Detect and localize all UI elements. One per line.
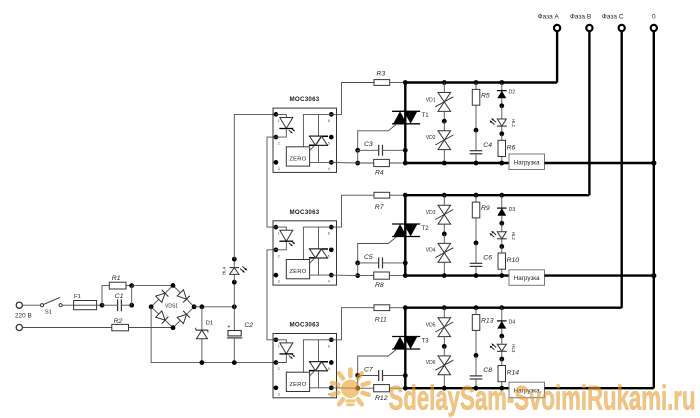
resistor R9 bbox=[472, 202, 480, 218]
load box channel 1 bbox=[509, 154, 545, 170]
U1 ZERO detector bbox=[286, 147, 309, 166]
svg-text:Фаза C: Фаза C bbox=[602, 14, 624, 21]
wire R2 to bridge bottom bbox=[129, 327, 174, 329]
U2 internal top rail bbox=[303, 227, 331, 259]
wire gate to C5 bbox=[358, 262, 379, 264]
wire VD middle bbox=[443, 224, 445, 234]
wire VD middle 2 bbox=[443, 234, 445, 244]
wire VD column bottom bbox=[443, 150, 445, 163]
wire R4 to bus bbox=[389, 162, 405, 164]
U2 ZERO detector bbox=[286, 260, 309, 279]
U1 gate link bbox=[310, 145, 315, 151]
dynistor VD1 bbox=[438, 93, 451, 102]
svg-text:HL3: HL3 bbox=[511, 344, 516, 353]
svg-text:1: 1 bbox=[278, 344, 280, 348]
junction D3 top bbox=[499, 193, 504, 198]
wire bridge plus bbox=[194, 306, 234, 308]
svg-text:0: 0 bbox=[652, 14, 656, 21]
wire gate node down bbox=[357, 263, 359, 276]
wire D2 lead bbox=[501, 83, 503, 91]
U2 internal led wires bbox=[276, 227, 286, 230]
svg-text:1: 1 bbox=[278, 119, 280, 123]
svg-text:R3: R3 bbox=[377, 70, 386, 77]
resistor R13 bbox=[472, 315, 480, 331]
op-coupler U1 body bbox=[273, 108, 337, 172]
resistor R14 bbox=[498, 366, 506, 382]
resistor R6 bbox=[498, 140, 506, 156]
svg-text:T1: T1 bbox=[422, 112, 430, 119]
svg-text:SdelaySam-SvoimiRukami.ru: SdelaySam-SvoimiRukami.ru bbox=[389, 380, 696, 418]
wire R13 to C8 bbox=[475, 330, 477, 355]
wire Фаза C drop bbox=[621, 32, 623, 308]
svg-text:VD1: VD1 bbox=[426, 98, 436, 104]
svg-text:T2: T2 bbox=[422, 225, 430, 232]
U3 internal top rail bbox=[303, 340, 331, 372]
svg-text:3: 3 bbox=[278, 167, 280, 171]
svg-text:Нагрузка: Нагрузка bbox=[514, 159, 540, 166]
dynistor VD3 bbox=[438, 205, 451, 214]
U3 internal bottom rail bbox=[310, 387, 332, 389]
resistor R11 bbox=[374, 305, 390, 311]
junction mid column bbox=[474, 241, 479, 246]
op-coupler U2 body bbox=[273, 221, 337, 285]
U3 internal led bbox=[280, 343, 293, 354]
svg-text:ZERO: ZERO bbox=[289, 157, 306, 163]
wire R14 to bus bbox=[501, 382, 503, 389]
junction neutral channel 2 bbox=[651, 273, 656, 278]
U1 internal led wires bbox=[276, 114, 286, 117]
junction R10 bottom bbox=[499, 273, 504, 278]
svg-text:VD2: VD2 bbox=[426, 135, 436, 141]
wire R5 to C4 bbox=[475, 105, 477, 130]
svg-text:2: 2 bbox=[278, 254, 280, 258]
wire U1 pin4 to gate bbox=[331, 161, 357, 164]
wire C5 to branch bbox=[383, 262, 406, 264]
svg-text:6: 6 bbox=[328, 119, 330, 123]
svg-text:R5: R5 bbox=[481, 92, 490, 99]
junction bridge top bbox=[171, 283, 176, 288]
op-coupler U3 body bbox=[273, 334, 337, 398]
wire VD column bottom bbox=[443, 262, 445, 275]
junction HL4 bottom bbox=[232, 280, 237, 285]
bridge diode top-right bbox=[177, 289, 190, 302]
resistor R2 bbox=[112, 324, 129, 330]
wire triac branch T1 bbox=[404, 83, 406, 164]
U3 internal led wires bbox=[276, 340, 286, 343]
junction gate node bbox=[355, 148, 360, 153]
svg-text:R1: R1 bbox=[112, 275, 121, 282]
wire R8 to bus bbox=[389, 275, 405, 277]
svg-text:C2: C2 bbox=[244, 322, 253, 329]
led HL3 bbox=[497, 344, 506, 351]
svg-text:S1: S1 bbox=[45, 310, 52, 316]
wire top bus channel 1 bbox=[405, 81, 557, 83]
wire gate to C3 bbox=[358, 149, 379, 151]
U2 pin 3 bbox=[274, 273, 279, 278]
svg-text:HL2: HL2 bbox=[511, 232, 516, 241]
wire HL3 to R14 bbox=[501, 351, 503, 359]
triac T2 bbox=[392, 223, 420, 225]
svg-text:3: 3 bbox=[278, 280, 280, 284]
wire VD middle 2 bbox=[443, 121, 445, 131]
svg-text:5: 5 bbox=[328, 254, 330, 258]
wire plus rail up bbox=[233, 282, 235, 307]
junction gate node bbox=[355, 373, 360, 378]
wire D3 to HL2 bbox=[501, 216, 503, 224]
junction HL1 bottom bbox=[499, 131, 504, 136]
svg-text:5: 5 bbox=[328, 367, 330, 371]
wire R1 to node bbox=[126, 285, 132, 287]
svg-text:C1: C1 bbox=[115, 293, 124, 300]
svg-text:R8: R8 bbox=[375, 282, 384, 289]
svg-text:R2: R2 bbox=[114, 318, 123, 325]
U1 pin 6 bbox=[329, 112, 334, 117]
svg-text:Фаза A: Фаза A bbox=[538, 14, 560, 21]
resistor R7 bbox=[374, 192, 390, 198]
U1 internal led bbox=[280, 118, 293, 129]
capacitor C1 bbox=[117, 299, 119, 311]
dynistor VD5 bbox=[438, 318, 451, 327]
svg-text:Нагрузка: Нагрузка bbox=[514, 275, 540, 282]
wire S1 to F1 bbox=[62, 304, 73, 306]
wire HL1 to R6 bbox=[501, 126, 503, 134]
junction C1 right bbox=[129, 303, 134, 308]
load box channel 3 bbox=[509, 382, 545, 398]
svg-text:ZERO: ZERO bbox=[289, 382, 306, 388]
dynistor VD6 bbox=[438, 356, 451, 365]
svg-text:T3: T3 bbox=[422, 337, 430, 344]
svg-text:C3: C3 bbox=[364, 141, 373, 148]
wire U1 pin2 to U2 pin1 bbox=[267, 137, 276, 227]
junction gate bottom bbox=[355, 161, 360, 166]
wire C6 bottom lead bbox=[475, 266, 477, 275]
capacitor C3 bbox=[378, 145, 380, 156]
led HL2 bbox=[497, 232, 506, 239]
junction R13 top bbox=[474, 305, 479, 310]
wire D4 lead bbox=[501, 308, 503, 321]
terminal 220V line 2 bbox=[16, 324, 22, 330]
wire gate to C7 bbox=[358, 375, 379, 377]
junction R7 to bus bbox=[390, 194, 406, 196]
wire D4 to HL3 bbox=[501, 329, 503, 337]
zener diode D1 bbox=[196, 329, 208, 331]
wire VD column top bbox=[443, 83, 445, 93]
capacitor C8 bbox=[470, 375, 483, 377]
junction C6 bottom bbox=[474, 273, 479, 278]
wire R9 to C6 bbox=[475, 218, 477, 243]
U2 pin 4 bbox=[329, 273, 334, 278]
svg-text:VD3: VD3 bbox=[426, 210, 436, 216]
svg-text:ZERO: ZERO bbox=[289, 269, 306, 275]
svg-text:VD6: VD6 bbox=[426, 360, 436, 366]
svg-text:D2: D2 bbox=[509, 89, 516, 95]
triac T3 bbox=[392, 336, 420, 338]
wire F1 to node bbox=[97, 304, 102, 306]
terminal 0 bbox=[651, 25, 657, 31]
wire top bus channel 3 bbox=[405, 307, 621, 309]
junction node after F1 bbox=[100, 303, 105, 308]
led HL1 bbox=[497, 119, 506, 126]
wire to R14 bbox=[501, 359, 503, 366]
wire to led HL1 bbox=[501, 106, 503, 119]
wire HL4 anode lead bbox=[233, 274, 235, 282]
wire to C8 bbox=[475, 355, 477, 376]
junction VD top bbox=[442, 305, 447, 310]
diode D4 bbox=[497, 320, 507, 322]
junction R3 to bus bbox=[390, 82, 406, 84]
svg-text:C7: C7 bbox=[364, 366, 373, 373]
wire R6 to bus bbox=[501, 157, 503, 164]
U2 pin 1 bbox=[274, 225, 279, 230]
U1 pin 5 bbox=[329, 135, 334, 140]
junction bridge right bbox=[192, 304, 197, 309]
diode bridge VDS1 frame bbox=[151, 285, 194, 327]
wire VD column top bbox=[443, 195, 445, 205]
svg-text:R4: R4 bbox=[375, 170, 384, 177]
wire to led HL2 bbox=[501, 223, 503, 231]
capacitor C6 bbox=[470, 262, 483, 264]
resistor R10 bbox=[498, 253, 506, 269]
svg-text:C4: C4 bbox=[483, 142, 492, 149]
U3 internal triac leads bbox=[318, 340, 320, 362]
junction bridge left bbox=[149, 304, 154, 309]
junction R11 to bus bbox=[390, 307, 406, 309]
wire VD middle bbox=[443, 111, 445, 121]
svg-text:HL4: HL4 bbox=[221, 266, 226, 275]
resistor R12 bbox=[358, 387, 374, 389]
wire U3 pin6 to R11 bbox=[331, 308, 374, 340]
junction D1 bottom bbox=[200, 360, 205, 365]
wire HL4 cathode lead bbox=[233, 259, 235, 267]
led HL4 bbox=[230, 268, 239, 275]
svg-text:R14: R14 bbox=[507, 370, 520, 377]
wire terminal1 to S1 bbox=[22, 304, 40, 306]
junction R1 right bbox=[129, 283, 134, 288]
wire D3 lead bbox=[501, 195, 503, 208]
wire T1 gate bbox=[358, 124, 397, 150]
terminal Фаза C bbox=[619, 25, 625, 31]
junction gate bottom bbox=[355, 273, 360, 278]
svg-text:MOC3063: MOC3063 bbox=[290, 96, 320, 103]
junction HL3 bottom bbox=[499, 357, 504, 362]
diode D2 bbox=[497, 90, 507, 92]
U3 pin 3 bbox=[274, 385, 279, 390]
svg-text:R10: R10 bbox=[507, 257, 520, 264]
wire gate node down bbox=[357, 150, 359, 163]
terminal Фаза B bbox=[586, 25, 592, 31]
junction neutral channel 1 bbox=[651, 160, 656, 165]
svg-text:C8: C8 bbox=[483, 367, 492, 374]
U2 pin 5 bbox=[329, 247, 334, 252]
wire T2 gate bbox=[358, 237, 397, 263]
svg-text:5: 5 bbox=[328, 142, 330, 146]
wire U2 pin4 to gate bbox=[331, 274, 357, 277]
wire C2 top lead bbox=[233, 307, 235, 331]
svg-text:2: 2 bbox=[278, 367, 280, 371]
wire bottom bus channel 2 left bbox=[405, 274, 509, 276]
wire C3 to branch bbox=[383, 149, 406, 151]
terminal 220V line 1 bbox=[16, 302, 22, 308]
wire node up to R1 bbox=[102, 286, 109, 306]
junction D4 top bbox=[499, 305, 504, 310]
svg-text:VDS1: VDS1 bbox=[165, 303, 178, 309]
U2 internal led bbox=[280, 230, 293, 241]
wire D1 bottom lead bbox=[201, 339, 203, 363]
resistor R3 bbox=[374, 80, 390, 86]
wire VD column bottom bbox=[443, 375, 445, 388]
svg-text:C5: C5 bbox=[364, 254, 373, 261]
wire VD column top bbox=[443, 308, 445, 318]
svg-text:F1: F1 bbox=[74, 294, 81, 300]
wire terminal2 to R2 bbox=[22, 327, 111, 329]
U1 pin 2 bbox=[274, 135, 279, 140]
svg-text:C6: C6 bbox=[483, 255, 492, 262]
svg-text:R12: R12 bbox=[375, 395, 388, 402]
wire triac branch T3 bbox=[404, 308, 406, 389]
U1 internal bottom rail bbox=[310, 161, 332, 163]
U1 pin 1 bbox=[274, 112, 279, 117]
junction D2 bottom bbox=[499, 103, 504, 108]
svg-text:4: 4 bbox=[328, 280, 330, 284]
bridge diode bottom-left bbox=[155, 311, 168, 324]
resistor R8 bbox=[358, 275, 374, 277]
triac T1 bbox=[392, 110, 420, 112]
junction gate bottom bbox=[355, 386, 360, 391]
junction VD bottom bbox=[442, 161, 447, 166]
wire U3 pin4 to gate bbox=[331, 387, 357, 389]
U3 pin 5 bbox=[329, 360, 334, 365]
junction VD middle bbox=[442, 344, 447, 349]
svg-text:3: 3 bbox=[278, 392, 280, 396]
junction D1 top bbox=[200, 304, 205, 309]
U3 pin 4 bbox=[329, 385, 334, 390]
capacitor C5 bbox=[378, 257, 380, 268]
U2 internal bottom rail bbox=[310, 274, 332, 276]
wire U2 pin6 to R7 bbox=[331, 195, 374, 227]
U2 internal triac leads bbox=[318, 227, 320, 249]
bridge diode top-left bbox=[155, 290, 168, 303]
junction VD bottom bbox=[442, 273, 447, 278]
U3 ZERO detector bbox=[286, 372, 309, 391]
U2 gate link bbox=[310, 258, 315, 264]
wire R5 lead bbox=[475, 83, 477, 90]
wire R12 to bus bbox=[389, 387, 405, 389]
wire R10 to bus bbox=[501, 269, 503, 275]
wire Фаза A drop bbox=[556, 32, 558, 83]
wire HL2 to R10 bbox=[501, 239, 503, 247]
wire R13 lead bbox=[475, 308, 477, 315]
junction C4 bottom bbox=[474, 161, 479, 166]
junction VD middle bbox=[442, 232, 447, 237]
watermark light-bulb icon bbox=[332, 370, 369, 407]
svg-text:+: + bbox=[227, 324, 230, 330]
resistor R5 bbox=[472, 89, 480, 105]
wire C1-R1 tie bbox=[131, 286, 133, 306]
wire node to bridge top bbox=[132, 285, 173, 287]
wire bottom bus channel 1 right bbox=[545, 162, 654, 164]
switch S1 bbox=[40, 304, 43, 307]
wire to C4 bbox=[475, 130, 477, 151]
svg-text:D4: D4 bbox=[509, 320, 516, 326]
wire bottom bus channel 2 right bbox=[545, 274, 654, 276]
U1 pin 3 bbox=[274, 160, 279, 165]
load box channel 2 bbox=[509, 270, 545, 286]
wire C8 bottom lead bbox=[475, 379, 477, 388]
wire T3 gate bbox=[358, 350, 397, 376]
wire R9 lead bbox=[475, 195, 477, 202]
svg-text:4: 4 bbox=[328, 167, 330, 171]
junction HL4 top bbox=[232, 257, 237, 262]
U3 internal triac bbox=[309, 361, 328, 363]
svg-text:VD4: VD4 bbox=[426, 248, 436, 254]
junction D3 bottom bbox=[499, 221, 504, 226]
svg-text:D1: D1 bbox=[206, 320, 214, 326]
svg-text:6: 6 bbox=[328, 232, 330, 236]
bridge diode bottom-right bbox=[177, 311, 190, 324]
wire bottom bus channel 3 right bbox=[545, 387, 654, 389]
junction bridge bottom bbox=[171, 325, 176, 330]
wire to R10 bbox=[501, 247, 503, 254]
resistor R1 bbox=[109, 282, 126, 289]
wire to R6 bbox=[501, 134, 503, 141]
capacitor C4 bbox=[470, 150, 483, 152]
dynistor VD2 bbox=[438, 131, 451, 140]
terminal Фаза A bbox=[554, 25, 560, 31]
junction D4 bottom bbox=[499, 334, 504, 339]
junction HL2 bottom bbox=[499, 244, 504, 249]
junction VD top bbox=[442, 193, 447, 198]
junction mid column bbox=[474, 128, 479, 133]
wire bottom bus channel 1 left bbox=[405, 162, 509, 164]
wire bridge minus down bbox=[151, 307, 276, 363]
wire U2 pin2 to U3 pin1 bbox=[267, 250, 276, 340]
U1 pin 4 bbox=[329, 160, 334, 165]
wire D1 top lead bbox=[201, 307, 203, 330]
wire C1 to node bbox=[121, 304, 131, 306]
svg-text:HL1: HL1 bbox=[511, 119, 516, 128]
svg-text:VD5: VD5 bbox=[426, 323, 436, 329]
junction R14 bottom bbox=[499, 386, 504, 391]
U3 gate link bbox=[310, 371, 315, 377]
junction VD top bbox=[442, 80, 447, 85]
wire D2 to HL1 bbox=[501, 98, 503, 106]
junction C2 top bbox=[232, 304, 237, 309]
svg-text:R9: R9 bbox=[481, 205, 490, 212]
wire C4 bottom lead bbox=[475, 154, 477, 163]
capacitor C7 bbox=[378, 370, 380, 381]
resistor R4 bbox=[358, 162, 374, 164]
svg-text:MOC3063: MOC3063 bbox=[290, 209, 320, 216]
dynistor VD4 bbox=[438, 243, 451, 252]
svg-text:4: 4 bbox=[328, 392, 330, 396]
wire VD middle 2 bbox=[443, 346, 445, 356]
svg-text:R7: R7 bbox=[375, 204, 384, 211]
wire neutral drop bbox=[653, 32, 655, 388]
U2 internal triac bbox=[309, 248, 328, 250]
junction D2 top bbox=[499, 80, 504, 85]
svg-text:D3: D3 bbox=[509, 207, 516, 213]
U2 pin 2 bbox=[274, 247, 279, 252]
wire VD middle bbox=[443, 337, 445, 347]
junction mid column bbox=[474, 353, 479, 358]
svg-text:Фаза B: Фаза B bbox=[570, 14, 591, 21]
wire triac branch T2 bbox=[404, 195, 406, 275]
junction R9 top bbox=[474, 193, 479, 198]
svg-text:220 В: 220 В bbox=[15, 313, 32, 320]
svg-text:R13: R13 bbox=[481, 318, 494, 325]
wire to led HL3 bbox=[501, 336, 503, 344]
wire to C6 bbox=[475, 243, 477, 263]
